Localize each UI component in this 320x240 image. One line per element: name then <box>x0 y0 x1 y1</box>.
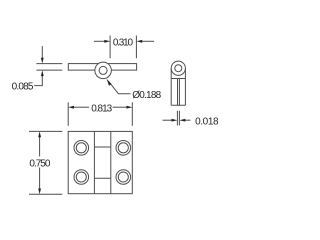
arrowhead 0.018 left (points right) <box>172 119 178 122</box>
arrowhead 0.750 bottom (points down) <box>38 189 41 195</box>
svg-text:0.085: 0.085 <box>12 82 34 93</box>
dim 0.813 extension line right <box>131 102 133 126</box>
arrowhead 0.750 top (points up) <box>38 131 41 137</box>
dim 0.085 lower leader: stem and elbow to label <box>34 75 42 85</box>
dim 0.813 dimension line left segment <box>73 106 89 108</box>
top view: knuckle outer circle <box>95 62 112 79</box>
svg-text:0.018: 0.018 <box>195 117 219 128</box>
front view: knuckle divider lower <box>94 177 110 179</box>
arrowhead 0.085 lower (points up) <box>41 70 44 76</box>
dim 0.310 extension line right <box>135 36 137 59</box>
right view: knuckle outer circle <box>171 61 185 75</box>
dim 0.085 extension line top <box>36 63 62 65</box>
hole bottom-right countersink <box>116 170 131 185</box>
top view: hinge leaf bar <box>68 64 136 71</box>
top view: knuckle pin hole circle <box>99 66 107 74</box>
dim 0.018 right arrow tail <box>185 119 191 121</box>
dim 0.018 extension line left <box>176 111 178 126</box>
dim 0.085 upper arrow stem <box>41 46 43 59</box>
dim 0.813 dimension line right segment <box>113 106 128 108</box>
hole top-left bore <box>76 143 86 153</box>
dim 0.750 dimension line top segment <box>39 136 41 156</box>
hole bottom-left countersink <box>74 170 89 185</box>
dim 0.085 extension line bottom <box>36 69 62 71</box>
svg-text:0.813: 0.813 <box>91 104 112 115</box>
arrowhead 0.310 right (points left) <box>136 40 142 43</box>
dim 0.310 right arrow tail <box>141 40 154 42</box>
arrowhead 0.018 right (points left) <box>180 119 186 122</box>
dim 0.310 left arrow tail <box>94 40 105 42</box>
dim 0.813 extension line left <box>67 102 69 126</box>
arrowhead 0.813 right (points right) <box>127 106 133 109</box>
svg-text:Ø0.188: Ø0.188 <box>132 90 161 101</box>
arrowhead 0.085 upper (points down) <box>41 58 44 64</box>
dim 0.750 dimension line bottom segment <box>39 168 41 190</box>
right view: pin hole circle <box>175 65 182 72</box>
right view: folded leaves body outline <box>171 68 185 105</box>
dim 0.750 extension line top <box>29 130 62 132</box>
dim 0.018 left arrow tail <box>163 119 172 121</box>
svg-text:0.750: 0.750 <box>29 159 50 170</box>
front view: knuckle joint right line <box>110 131 112 193</box>
leader line for diameter 0.188 <box>110 83 130 94</box>
svg-text:0.310: 0.310 <box>113 38 134 49</box>
dim 0.018 extension line right <box>178 111 180 126</box>
hole bottom-right bore <box>118 172 128 182</box>
front view: knuckle joint left line <box>93 131 95 193</box>
arrowhead diameter leader (points up-left at circle) <box>107 79 112 86</box>
right view: leaf gap lines <box>178 79 180 106</box>
dim 0.310 extension line left <box>109 36 111 59</box>
hole bottom-left bore <box>76 172 86 182</box>
front view: hinge plate outline <box>68 131 132 193</box>
hole top-right countersink <box>116 141 131 156</box>
dim 0.750 extension line bottom <box>29 193 62 195</box>
front view: knuckle divider upper <box>94 146 110 148</box>
arrowhead 0.813 left (points left) <box>68 106 74 109</box>
hole top-left countersink <box>74 141 89 156</box>
hole top-right bore <box>118 143 128 153</box>
arrowhead 0.310 left (points right) <box>104 40 110 43</box>
